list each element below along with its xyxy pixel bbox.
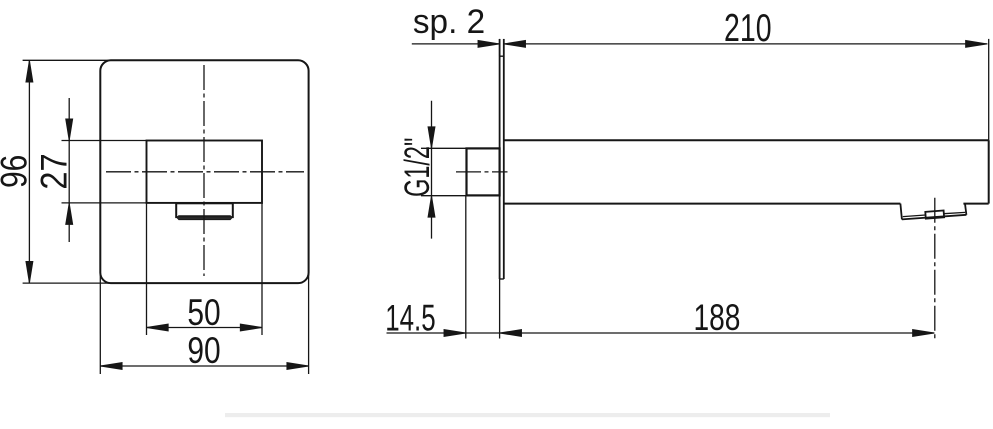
dimension 210 arrow left (pointing left at plate) [504,40,526,47]
dimension 50 line [147,327,263,329]
spout body side view top edge [504,139,989,141]
svg-text:90: 90 [187,331,220,372]
aerator centerline / 188 extension line [934,198,936,339]
spout body bottom edge right of aerator [963,203,988,205]
extension line plate left side down to 90-dim [99,273,101,374]
dimension 27 line [68,98,70,242]
dimension 50 arrow left [147,324,169,331]
dimension 210 arrow right [966,40,988,47]
dimension 27 arrow top (outside, pointing down) [66,119,73,141]
extension line plate right side down to 90-dim [308,273,310,374]
spout body bottom edge left of aerator [504,203,901,205]
G1/2 arrow bottom (outside, pointing up) [428,196,435,218]
bottom dimension line (14.5 and 188) [387,332,935,334]
extension line fitting left edge down to 14.5-dim [465,195,467,338]
aerator nozzle insert [925,211,944,219]
sp.2 leader line [412,43,500,45]
sp.2 arrow pointing right at plate [478,40,500,47]
dimension 188 arrow right [913,330,935,337]
extension line plate left edge down to bottom dims [499,279,501,339]
spout outlet cup front view [176,203,233,217]
svg-text:27: 27 [34,153,75,189]
svg-text:50: 50 [187,293,220,334]
aerator left edge [900,204,902,220]
vertical centerline of front view [203,65,205,276]
extension line body right side down to 50-dim [261,203,263,335]
svg-text:G1/2": G1/2" [398,138,437,197]
G1/2 arrow top (outside, pointing down) [428,127,435,149]
wall plate bottom cap [500,278,504,280]
spout body right end edge [988,140,990,203]
dimension G1/2 line [431,101,433,239]
dimension 27 arrow bottom (outside, pointing up) [66,203,73,225]
horizontal centerline of side view [456,171,508,173]
G1/2 extension line top [421,147,467,149]
dimension arrow at plate (pointing left) [500,330,522,337]
dimension 90 arrow left [100,363,122,370]
G1/2 threaded inlet fitting [467,148,500,195]
sp.2 extension line plate right above [503,39,505,56]
svg-text:188: 188 [693,296,740,338]
wall plate edge-on left line [499,39,501,279]
sp.2 extension line plate left above [499,39,501,56]
aerator inner rim left [903,215,926,217]
spout outlet inner bottom line [178,215,231,217]
wall plate top cap [500,55,504,57]
extension line body left side down to 50-dim [146,203,148,335]
svg-text:14.5: 14.5 [385,297,435,339]
extension line bottom edge of body to 27-dim [62,202,147,204]
wall plate front outline [100,60,308,283]
aerator right edge [965,204,966,215]
G1/2 extension line bottom [421,195,467,197]
svg-text:210: 210 [724,7,772,50]
extension line top edge of body to 27-dim [62,140,147,142]
extension line body right end up to 210-dim [988,39,990,140]
svg-text:96: 96 [0,155,35,188]
dimension 96 arrow top [26,60,33,82]
extension line plate top to 96-dim [23,59,111,61]
dimension 210 line [504,43,988,45]
aerator bottom outer edge [902,215,967,220]
aerator inner rim right [944,212,966,213]
dimension 90 line [100,365,308,367]
spout body front rectangle [147,141,263,203]
dimension 96 arrow bottom [26,261,33,283]
wall plate edge-on right line [503,39,505,279]
dimension 90 arrow right [287,363,309,370]
horizontal centerline of front view [106,171,304,173]
dimension 50 arrow right [240,324,262,331]
faint bottom band [225,413,830,417]
extension line plate bottom to 96-dim [23,282,111,284]
dimension 96 line [28,60,30,283]
dimension 14.5 arrow (outside, pointing right) [444,330,466,337]
svg-text:sp. 2: sp. 2 [413,4,485,41]
spout outlet dark bottom rim [176,217,233,220]
